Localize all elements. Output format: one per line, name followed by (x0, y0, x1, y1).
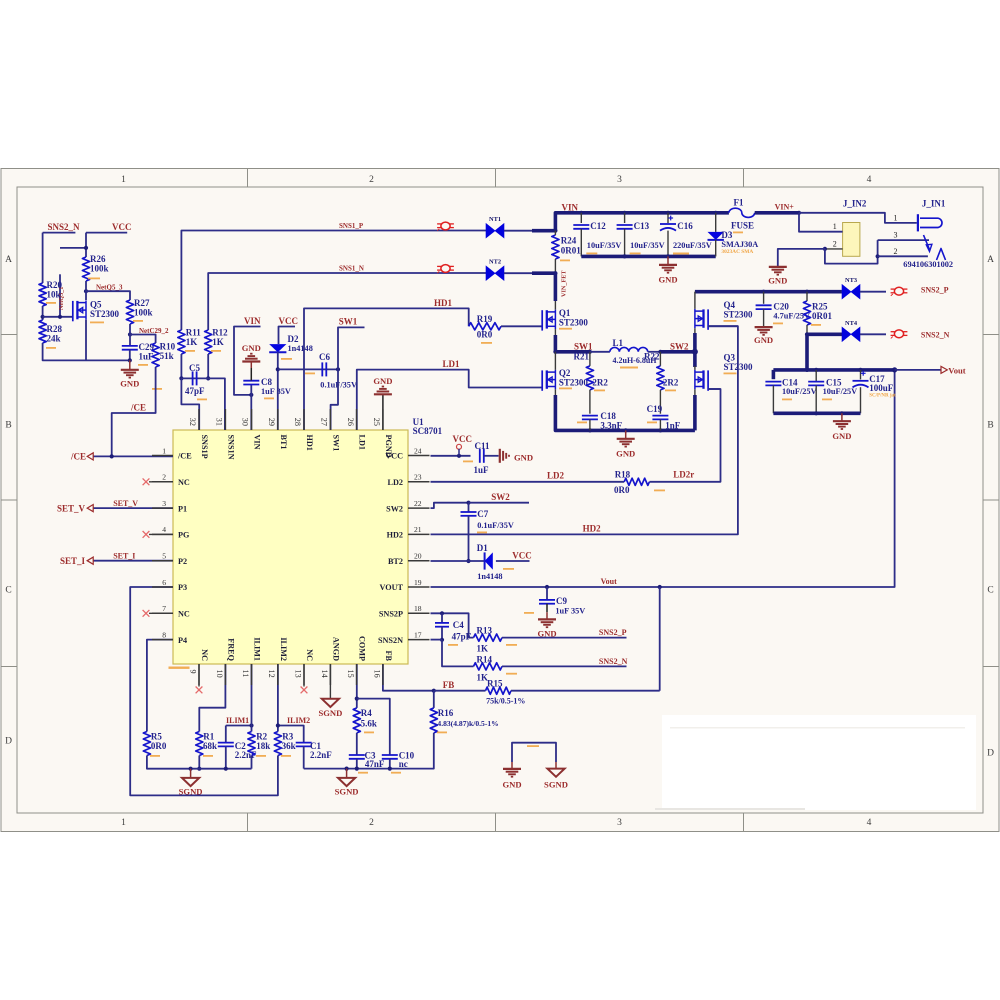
wire Vout (895, 369, 941, 371)
capacitor C9 (546, 587, 548, 600)
signal ground (345, 767, 349, 771)
svg-text:0R0: 0R0 (477, 330, 493, 340)
wire pin24 (431, 455, 471, 457)
svg-text:J_IN1: J_IN1 (922, 199, 946, 209)
svg-text:18k: 18k (256, 741, 270, 751)
wire pin30 (250, 385, 252, 430)
svg-text:1n4148: 1n4148 (477, 572, 502, 581)
svg-text:R27: R27 (134, 298, 150, 308)
svg-text:19: 19 (414, 578, 422, 587)
svg-text:PG: PG (178, 531, 190, 540)
fuse F1 (729, 208, 755, 217)
svg-text:VIN: VIN (244, 316, 261, 326)
power port VCC (457, 444, 462, 449)
svg-text:SW2: SW2 (386, 504, 403, 513)
svg-text:SET_I: SET_I (60, 556, 86, 566)
svg-text:1K: 1K (477, 644, 489, 654)
svg-text:D2: D2 (288, 334, 299, 344)
svg-text:24k: 24k (47, 334, 61, 344)
wire SNS1_P (181, 231, 486, 331)
svg-text:R11: R11 (186, 328, 202, 338)
svg-text:51k: 51k (160, 351, 174, 361)
svg-text:10: 10 (215, 670, 224, 678)
wire rail (147, 756, 252, 769)
svg-text:6: 6 (162, 578, 166, 587)
resistor R1 (196, 732, 203, 756)
svg-text:1nF: 1nF (665, 421, 681, 431)
svg-text:GND: GND (768, 276, 787, 286)
wire (825, 248, 843, 250)
svg-text:C18: C18 (600, 411, 616, 421)
svg-text:SGND: SGND (544, 780, 568, 790)
wire (42, 306, 44, 320)
ground below C9 (546, 604, 548, 613)
capacitor C2 (225, 726, 227, 743)
wire (85, 281, 87, 300)
resistor R25 (806, 292, 808, 301)
wire SNS1_N (208, 273, 486, 330)
svg-text:P3: P3 (178, 583, 187, 592)
wire (799, 213, 917, 223)
port SET_V (93, 507, 173, 509)
svg-text:PGND: PGND (384, 435, 393, 458)
svg-text:ILIM2: ILIM2 (279, 637, 288, 661)
ground (625, 430, 627, 438)
wire (532, 229, 555, 233)
svg-text:1: 1 (162, 446, 166, 455)
svg-text:3: 3 (617, 818, 622, 828)
wire bottom rail (555, 395, 695, 430)
svg-text:SNS1_P: SNS1_P (339, 222, 364, 230)
wire pin18 (431, 613, 474, 637)
svg-text:LD1: LD1 (358, 435, 367, 450)
wire FB (383, 664, 434, 691)
svg-text:Q1: Q1 (559, 308, 571, 318)
svg-text:LD1: LD1 (443, 359, 461, 369)
svg-text:D: D (5, 737, 12, 747)
svg-text:VOUT: VOUT (380, 583, 404, 592)
svg-text:1uF 35V: 1uF 35V (555, 607, 585, 616)
svg-text:5.6k: 5.6k (361, 719, 377, 729)
wire (60, 247, 86, 249)
svg-text:F1: F1 (734, 198, 744, 208)
svg-text:68k: 68k (203, 741, 217, 751)
svg-text:5: 5 (162, 552, 166, 561)
wire pin4 (149, 533, 173, 535)
svg-text:10uF/25V: 10uF/25V (823, 387, 858, 396)
svg-text:3: 3 (162, 499, 166, 508)
capacitor C15 (815, 370, 817, 382)
wire cap bottom rail (581, 255, 715, 259)
capacitor C29 (122, 345, 138, 347)
svg-text:100k: 100k (134, 308, 153, 318)
wire (532, 271, 555, 275)
wire VIN_FET (553, 271, 557, 275)
svg-text:18: 18 (414, 604, 422, 613)
svg-text:R16: R16 (438, 708, 454, 718)
wire (129, 324, 131, 346)
wire (468, 516, 470, 561)
svg-text:HD2: HD2 (583, 524, 602, 534)
port /CE (87, 453, 93, 460)
svg-text:14: 14 (320, 670, 329, 678)
svg-text:SNS1P: SNS1P (200, 435, 209, 459)
wire (649, 389, 720, 482)
svg-text:SNS2_N: SNS2_N (48, 222, 81, 232)
svg-text:NT4: NT4 (845, 320, 858, 327)
svg-text:Q2: Q2 (559, 368, 571, 378)
wire (504, 230, 534, 232)
svg-text:ILIM2: ILIM2 (287, 716, 310, 725)
diode D3 TVS (715, 213, 717, 232)
svg-text:Q4: Q4 (724, 300, 736, 310)
svg-text:NetQ5_3: NetQ5_3 (96, 284, 123, 292)
net tie NT3 (842, 285, 851, 299)
svg-text:ST2300: ST2300 (90, 309, 120, 319)
svg-text:R4: R4 (361, 708, 372, 718)
wire pin15 (356, 664, 358, 708)
wire Q4 gate (708, 325, 738, 327)
resistor R4 (353, 708, 360, 733)
wire (504, 272, 534, 274)
svg-text:ST2300: ST2300 (559, 378, 589, 388)
wire (251, 756, 253, 769)
svg-text:SNS2_N: SNS2_N (599, 657, 628, 666)
resistor R24 (552, 235, 559, 259)
ground (129, 360, 131, 369)
wire (441, 627, 443, 640)
wire pin27 (331, 369, 338, 430)
svg-text:ANGD: ANGD (331, 637, 340, 661)
svg-text:24: 24 (414, 446, 422, 455)
svg-text:/CE: /CE (130, 403, 146, 413)
svg-text:D3: D3 (721, 230, 732, 240)
svg-text:13: 13 (293, 670, 302, 678)
capacitor C19 (659, 390, 661, 414)
svg-text:C16: C16 (677, 221, 693, 231)
svg-text:FREQ: FREQ (226, 638, 235, 661)
svg-text:C14: C14 (782, 378, 798, 388)
resistor R20 (39, 283, 46, 306)
svg-text:C9: C9 (556, 596, 567, 606)
svg-text:R5: R5 (151, 732, 162, 742)
wire LD2 (431, 481, 625, 483)
wire (554, 329, 556, 336)
svg-text:LD2r: LD2r (673, 469, 694, 479)
svg-text:SET_V: SET_V (113, 499, 138, 508)
svg-text:10uF/35V: 10uF/35V (630, 241, 665, 250)
node NetQ5_3 (84, 289, 88, 293)
connector 694106301002 (878, 239, 929, 241)
svg-text:4: 4 (162, 525, 166, 534)
svg-text:HD1: HD1 (305, 435, 314, 451)
svg-text:20: 20 (414, 552, 422, 561)
wire (357, 699, 390, 755)
diff pair marker (894, 330, 903, 338)
wire SNS2_N row (805, 332, 809, 336)
wire (825, 240, 878, 264)
svg-text:SNS1N: SNS1N (226, 435, 235, 460)
wire (43, 343, 130, 360)
wire (356, 759, 358, 769)
svg-text:A: A (5, 255, 12, 265)
svg-text:VCC: VCC (112, 222, 132, 232)
wire pin10 FREQ (199, 664, 225, 732)
svg-text:B: B (987, 421, 993, 431)
svg-text:R20: R20 (47, 280, 63, 290)
svg-text:P1: P1 (178, 504, 187, 513)
svg-text:R24: R24 (561, 236, 577, 246)
wire pin7 (149, 612, 173, 614)
wire (389, 759, 391, 769)
svg-text:2: 2 (894, 247, 898, 256)
svg-text:694106301002: 694106301002 (903, 260, 953, 269)
wire VIN rail (555, 213, 729, 231)
svg-text:25: 25 (372, 418, 381, 426)
svg-text:29: 29 (267, 418, 276, 426)
svg-text:4: 4 (867, 175, 872, 185)
wire (805, 334, 809, 370)
capacitor C6 (278, 368, 338, 370)
wire pin9 (198, 664, 200, 687)
svg-text:A: A (987, 255, 994, 265)
svg-text:4.83(4.87)k/0.5-1%: 4.83(4.87)k/0.5-1% (437, 719, 498, 728)
svg-text:3: 3 (894, 231, 898, 240)
wire (129, 350, 131, 361)
resistor R3 (274, 732, 281, 756)
svg-text:1n4148: 1n4148 (288, 344, 313, 353)
transistor Q3 (693, 352, 697, 367)
svg-text:47pF: 47pF (185, 386, 205, 396)
wire (511, 690, 660, 692)
capacitor C3 (356, 733, 358, 755)
resistor R18 (624, 478, 649, 485)
ground (667, 256, 669, 265)
svg-text:28: 28 (293, 418, 302, 426)
wire (501, 325, 542, 327)
wire VIN+ (755, 211, 799, 215)
svg-text:R22: R22 (644, 352, 660, 362)
svg-text:SW2: SW2 (491, 492, 510, 502)
svg-text:16: 16 (372, 670, 381, 678)
svg-text:SET_V: SET_V (57, 503, 86, 513)
svg-text:1uF 35V: 1uF 35V (261, 387, 291, 396)
wire HD2 (431, 326, 738, 534)
wire SW2 rail (658, 350, 662, 354)
wire (659, 587, 661, 691)
svg-text:R3: R3 (282, 732, 293, 742)
svg-text:nc: nc (399, 759, 408, 769)
svg-text:SC/P/NR jat: SC/P/NR jat (869, 394, 896, 399)
capacitor C7 (468, 503, 470, 512)
svg-text:10uF/25V: 10uF/25V (782, 387, 817, 396)
wire pin17 (431, 639, 443, 641)
wire (304, 733, 434, 769)
svg-text:26: 26 (346, 418, 355, 426)
svg-text:SW1: SW1 (331, 435, 340, 452)
capacitor C14 (772, 370, 776, 379)
svg-text:21: 21 (414, 525, 422, 534)
capacitor C5 (181, 377, 208, 379)
svg-text:NT2: NT2 (489, 259, 501, 266)
node NetC29_2 (128, 332, 132, 336)
svg-text:FB: FB (443, 680, 455, 690)
capacitor C11 (479, 449, 481, 463)
diode D2 (269, 344, 286, 352)
diode D1 (485, 552, 493, 569)
svg-text:GND: GND (514, 452, 533, 462)
svg-text:27: 27 (320, 418, 329, 426)
capacitor C18 (589, 390, 591, 414)
svg-text:100k: 100k (90, 264, 109, 274)
svg-text:C20: C20 (773, 302, 789, 312)
wire (181, 378, 199, 430)
svg-text:2: 2 (369, 175, 374, 185)
svg-text:10uF/35V: 10uF/35V (587, 241, 622, 250)
svg-text:GND: GND (658, 275, 677, 285)
ground (511, 762, 513, 769)
svg-text:GND: GND (616, 449, 635, 459)
transistor Q4 (694, 292, 696, 309)
svg-text:SGND: SGND (335, 787, 359, 797)
resistor R28 (39, 320, 46, 343)
wire VOUT (431, 370, 895, 587)
svg-text:VCC: VCC (279, 316, 299, 326)
ground above pin25 (PGND) (382, 394, 384, 430)
net tie NT2 (486, 266, 495, 280)
svg-text:NC: NC (178, 478, 190, 487)
svg-text:1: 1 (121, 818, 126, 828)
svg-text:HD1: HD1 (434, 298, 453, 308)
resistor R2 (248, 732, 255, 756)
svg-text:VIN+: VIN+ (775, 203, 795, 212)
svg-text:C7: C7 (477, 509, 488, 519)
wire (225, 746, 227, 768)
svg-text:D: D (987, 749, 994, 759)
wire (338, 327, 365, 369)
svg-text:FB: FB (384, 651, 393, 662)
capacitor C16 (667, 213, 669, 223)
resistor R21 (589, 352, 591, 366)
svg-text:32: 32 (188, 418, 197, 426)
wire output top rail (695, 290, 842, 294)
svg-text:36k: 36k (282, 741, 296, 751)
wire pin14 ANGD (329, 664, 331, 699)
svg-text:SNS2_P: SNS2_P (599, 628, 627, 637)
capacitor C13 (624, 213, 626, 223)
capacitor C20 (763, 292, 765, 304)
svg-text:C11: C11 (475, 441, 491, 451)
svg-text:1: 1 (121, 175, 126, 185)
wire (693, 333, 697, 352)
diff pair marker (441, 265, 450, 273)
ground above C8 (250, 368, 252, 381)
wire (42, 233, 44, 283)
wire (130, 335, 156, 344)
svg-text:R26: R26 (90, 254, 106, 264)
svg-text:C8: C8 (261, 377, 272, 387)
svg-text:GND: GND (502, 780, 521, 790)
wire (180, 354, 182, 378)
svg-text:C13: C13 (634, 221, 650, 231)
svg-text:R10: R10 (160, 342, 176, 352)
diff pair marker (441, 222, 450, 230)
svg-text:22: 22 (414, 499, 422, 508)
svg-text:R28: R28 (47, 324, 63, 334)
svg-text:12: 12 (267, 670, 276, 678)
svg-text:R2: R2 (256, 732, 267, 742)
svg-text:30: 30 (241, 418, 250, 426)
capacitor C4 (441, 613, 443, 623)
svg-text:100uF: 100uF (869, 383, 894, 393)
resistor R27 (126, 300, 133, 324)
wire output cap rail (773, 368, 894, 372)
wire (279, 327, 296, 345)
signal ground (322, 699, 339, 707)
ground (763, 326, 765, 328)
svg-text:FUSE: FUSE (731, 221, 754, 231)
svg-text:SNS2_P: SNS2_P (921, 285, 949, 294)
wire (198, 756, 200, 769)
svg-text:SGND: SGND (318, 708, 342, 718)
svg-text:J_IN2: J_IN2 (843, 199, 867, 209)
svg-text:VIN: VIN (562, 203, 579, 213)
svg-text:SNS2_N: SNS2_N (921, 330, 950, 339)
svg-text:47pF: 47pF (452, 632, 472, 642)
svg-text:8: 8 (162, 630, 166, 639)
svg-text:VIN_FET: VIN_FET (561, 270, 568, 297)
svg-text:R21: R21 (574, 352, 590, 362)
svg-text:GND: GND (242, 343, 261, 353)
wire SNS2_P (502, 637, 627, 639)
svg-text:NC: NC (200, 649, 209, 661)
wire ILIM1 (226, 725, 252, 727)
resistor R11 (178, 330, 185, 354)
svg-text:P4: P4 (178, 636, 187, 645)
resistor R15 (434, 690, 486, 692)
svg-text:C5: C5 (189, 363, 200, 373)
svg-text:17: 17 (414, 630, 422, 639)
svg-text:VIN: VIN (253, 435, 262, 450)
svg-text:VCC: VCC (512, 551, 532, 561)
svg-text:SNS2P: SNS2P (379, 610, 403, 619)
wire (85, 233, 87, 257)
svg-text:Vout: Vout (601, 577, 617, 586)
svg-text:C4: C4 (453, 620, 464, 630)
svg-text:C6: C6 (319, 352, 330, 362)
svg-text:R12: R12 (212, 328, 228, 338)
svg-text:9: 9 (188, 670, 197, 674)
resistor R5 (143, 732, 150, 756)
svg-text:3.3nF: 3.3nF (600, 421, 622, 431)
wire pin20 (431, 560, 486, 562)
svg-text:3023AC SMA: 3023AC SMA (721, 249, 753, 255)
svg-text:47nF: 47nF (365, 759, 385, 769)
wire ILIM2 (278, 726, 304, 743)
signal ground (190, 769, 192, 778)
svg-text:2: 2 (369, 818, 374, 828)
wire bottom rail (773, 411, 860, 415)
svg-text:P2: P2 (178, 557, 187, 566)
svg-text:SMAJ30A: SMAJ30A (721, 240, 758, 249)
wire LD1 (357, 370, 542, 430)
svg-text:NT1: NT1 (489, 216, 501, 223)
svg-text:R1: R1 (203, 732, 214, 742)
svg-text:3: 3 (617, 175, 622, 185)
svg-text:VCC: VCC (453, 434, 473, 444)
svg-text:C: C (987, 586, 993, 596)
wire (496, 560, 530, 562)
